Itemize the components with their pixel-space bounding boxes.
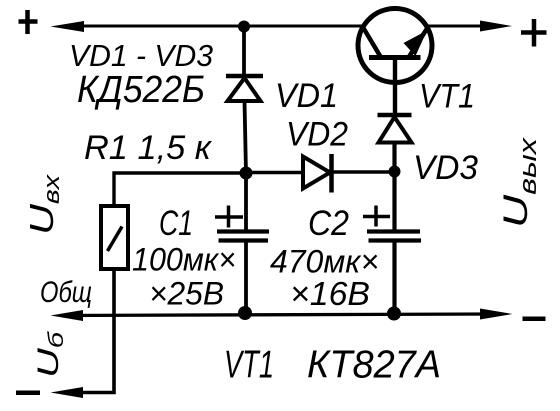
svg-text:C2: C2	[308, 204, 349, 243]
svg-text:C1: C1	[159, 204, 193, 243]
svg-text:VT1: VT1	[419, 78, 475, 116]
svg-text:VD1: VD1	[275, 77, 338, 115]
svg-text:VD1 - VD3: VD1 - VD3	[69, 38, 213, 73]
svg-text:КТ827А: КТ827А	[307, 344, 441, 387]
svg-text:КД522Б: КД522Б	[77, 69, 205, 111]
svg-text:×25В: ×25В	[149, 276, 224, 312]
svg-text:Общ: Общ	[40, 276, 92, 309]
svg-text:100мк×: 100мк×	[132, 242, 236, 278]
svg-text:R1 1,5 к: R1 1,5 к	[84, 129, 213, 167]
svg-text:VT1: VT1	[224, 344, 274, 387]
svg-text:VD2: VD2	[286, 116, 348, 154]
svg-text:VD3: VD3	[413, 149, 478, 187]
svg-text:×16В: ×16В	[290, 275, 370, 312]
